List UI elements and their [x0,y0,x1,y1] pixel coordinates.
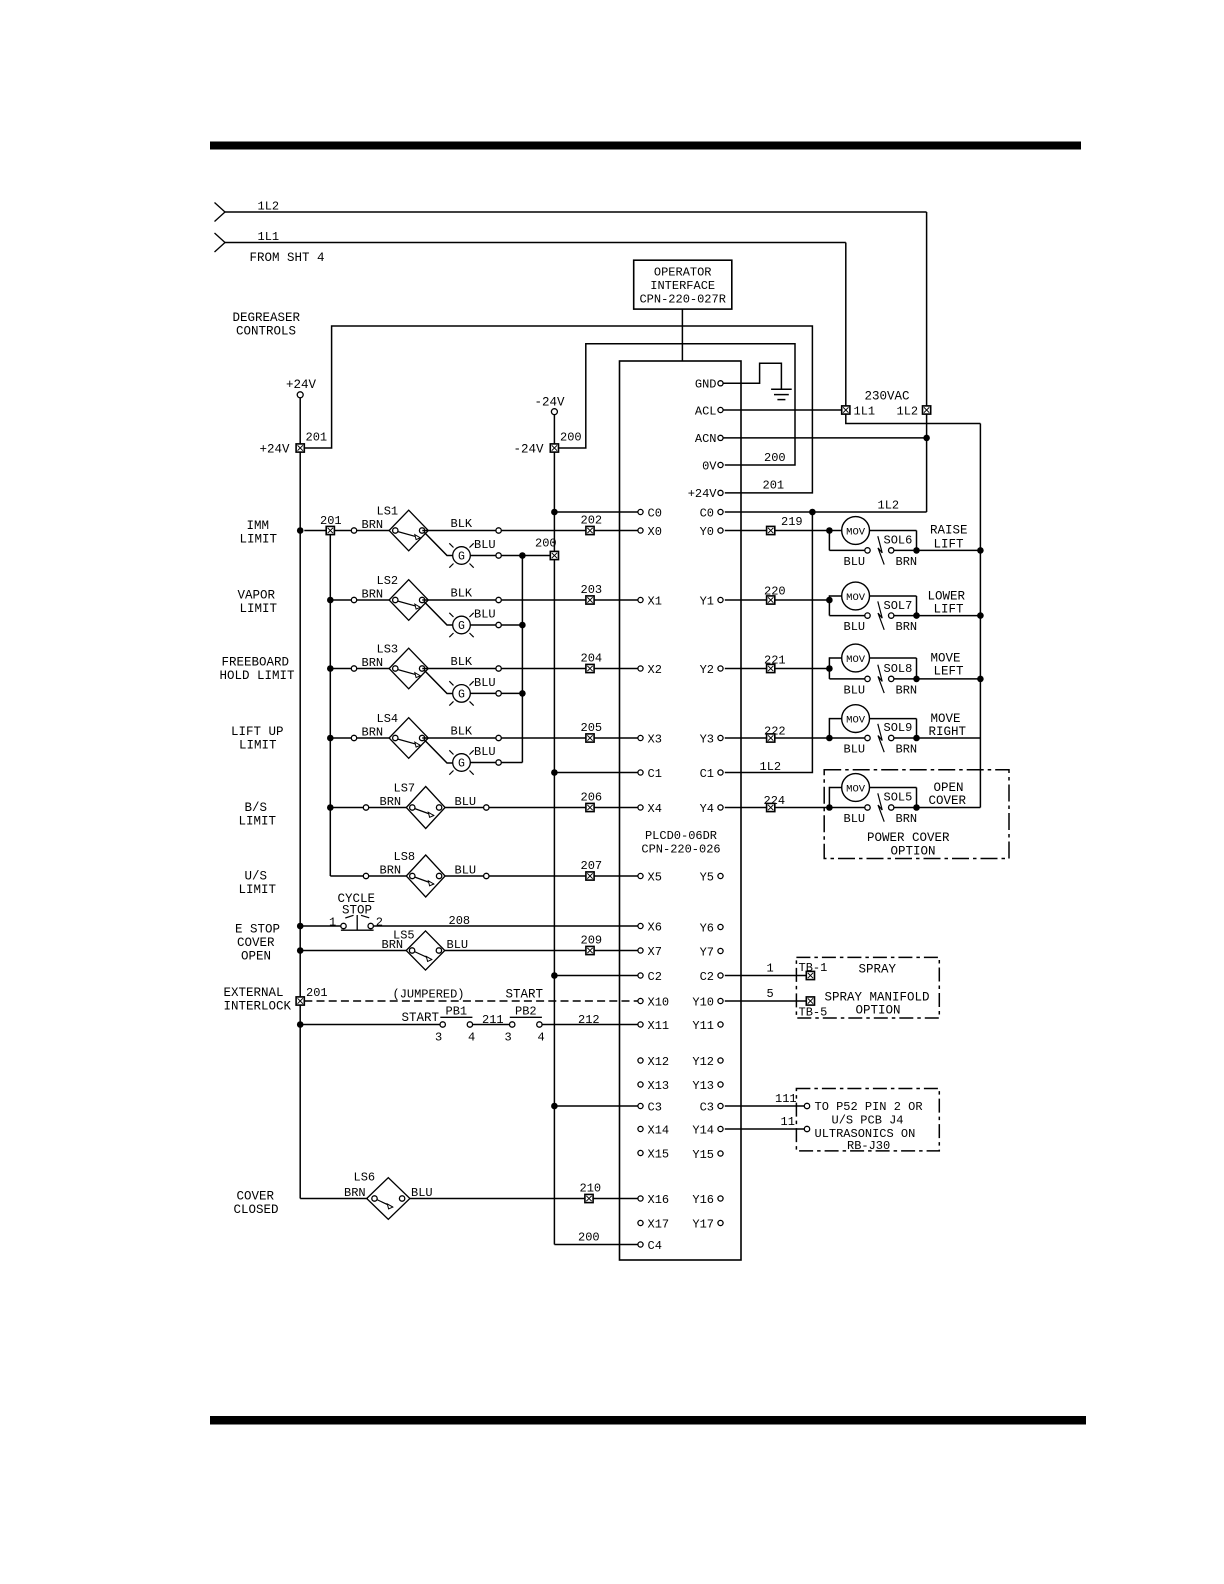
svg-text:START: START [506,988,544,1002]
wire GND [723,363,781,389]
svg-text:205: 205 [581,721,603,735]
svg-text:RAISE: RAISE [930,523,968,537]
ultrasonics box (dash-dot) [796,1089,939,1151]
pin X14 [638,1123,669,1137]
wire LS1 BLU to lamp bus [501,555,522,557]
pin Y5 [700,870,724,884]
svg-text:BRN: BRN [896,555,918,569]
label U/S LIMIT [239,870,277,898]
svg-text:Y1: Y1 [700,594,714,608]
pin C2 [638,970,662,984]
power cover option box (dash-dot) [824,770,1009,859]
wire 208 to PLC [373,925,638,927]
terminal 221 [767,664,775,672]
svg-text:5: 5 [767,987,774,1001]
pin X1 [638,594,662,608]
svg-text:DEGREASER: DEGREASER [233,311,301,325]
wire C3 left [554,1105,638,1107]
svg-text:OPEN: OPEN [934,781,964,795]
terminal TB-5 [806,997,814,1005]
svg-text:CPN-220-027R: CPN-220-027R [639,293,725,307]
wire 205 to PLC [594,737,638,739]
wire LS1 to lamp [425,533,453,556]
svg-text:COVER: COVER [237,936,275,950]
svg-text:Y16: Y16 [692,1193,714,1207]
junction cover-open row [297,947,304,954]
connection point LS4 BRN [351,735,356,740]
wire LS3 BLU to lamp bus [501,692,522,694]
wire C0 left [554,511,638,513]
svg-text:MOV: MOV [846,592,866,604]
terminal 201 +24V [296,444,304,452]
indicator lamp G LS1 [449,543,473,567]
svg-text:TO P52 PIN 2 OR: TO P52 PIN 2 OR [815,1100,923,1114]
svg-text:LIMIT: LIMIT [239,739,277,753]
top border bar [211,142,1081,149]
label MOVE LEFT [931,652,965,679]
wire left bus to LS6 [300,1198,368,1200]
svg-text:B/S: B/S [245,801,268,815]
solenoid coil SOL6 [829,536,916,564]
svg-text:X12: X12 [648,1055,670,1069]
svg-text:+24V: +24V [260,443,291,457]
connection point LS4 BLU [496,760,501,765]
wire to LS3 switch [357,668,390,670]
label MOVE RIGHT [929,712,967,739]
svg-text:Y14: Y14 [692,1123,714,1137]
terminal 200 on -24V bus (LS lamp return) [550,551,558,559]
wire branch bus to LS3 [330,668,351,670]
svg-text:0V: 0V [702,459,717,473]
pin X4 [638,802,662,816]
svg-text:X15: X15 [648,1147,670,1161]
wire left bus to LS5 [300,950,407,952]
svg-text:207: 207 [581,859,603,873]
svg-text:BRN: BRN [896,620,918,634]
lamp return bus [521,556,523,763]
junction bus SOL7 [977,612,984,619]
svg-text:LS2: LS2 [377,574,399,588]
wire 1L2 below terminal [926,414,928,512]
svg-text:LIMIT: LIMIT [239,883,277,897]
pin X13 [638,1079,669,1093]
junction branch bus [327,597,334,604]
wire Y14 to ultrasonics [725,1128,805,1130]
junction start row [297,1021,304,1028]
svg-text:RB-J30: RB-J30 [847,1139,890,1153]
svg-text:COVER: COVER [237,1190,275,1204]
svg-text:209: 209 [581,934,603,948]
svg-text:211: 211 [482,1013,504,1027]
connection point ultrasonics C3 [804,1103,809,1108]
pushbutton PB2 (NO) [510,1017,543,1027]
svg-text:OPERATOR: OPERATOR [654,266,712,280]
label FREEBOARD HOLD LIMIT [220,656,296,684]
svg-text:IMM: IMM [247,519,270,533]
pin Y1 [700,594,724,608]
svg-text:C0: C0 [700,506,714,520]
svg-text:221: 221 [764,654,786,668]
wire 201 to LS1 [334,530,351,532]
terminal 222 [767,734,775,742]
wire 1L1 vertical drop [845,243,847,406]
wire C3 to ultrasonics [725,1105,805,1107]
solenoid SOL8 MOV branch [829,644,916,679]
wire LS1 to terminal 202 [501,530,586,532]
svg-text:BLU: BLU [844,743,866,757]
pin C1 [638,767,662,781]
pushbutton PB1 (NO) [440,1017,473,1027]
svg-text:C2: C2 [648,970,662,984]
svg-text:INTERLOCK: INTERLOCK [224,1000,292,1014]
svg-text:FROM SHT 4: FROM SHT 4 [250,251,325,265]
svg-text:BLU: BLU [844,555,866,569]
svg-text:Y7: Y7 [700,945,714,959]
svg-text:230VAC: 230VAC [864,390,909,404]
indicator lamp G LS2 [449,613,473,637]
svg-text:SOL5: SOL5 [884,791,913,805]
pin GND [695,378,723,392]
svg-text:C0: C0 [648,506,662,520]
pin C3 [638,1100,662,1114]
pin X15 [638,1147,669,1161]
svg-text:220: 220 [764,585,786,599]
wire LS2 BLK [422,599,496,601]
wire 210 to PLC [593,1198,638,1200]
svg-text:C2: C2 [700,970,714,984]
wire LS3 BLK [422,668,496,670]
pin X12 [638,1055,669,1069]
terminal 207 [586,872,594,880]
wire Y output 222 [725,737,767,739]
pin C4 [638,1239,662,1253]
terminal 200 -24V [550,444,558,452]
svg-text:MOV: MOV [846,715,866,727]
svg-text:PLCD0-06DR: PLCD0-06DR [645,829,717,843]
wire Y10 to TB-5 [725,1000,807,1002]
wire LS4 to lamp [425,740,453,763]
svg-text:PB2: PB2 [515,1005,537,1019]
wire SOL7 to 1L2 bus [917,615,981,617]
wire Y output 224 [725,807,767,809]
wire branch bus to LS8 [330,875,363,877]
svg-text:Y10: Y10 [692,995,714,1009]
wire Y output 219 [725,530,767,532]
svg-text:Y3: Y3 [700,732,714,746]
svg-text:BLK: BLK [451,587,473,601]
svg-text:C1: C1 [648,767,662,781]
label EXTERNAL INTERLOCK [224,986,292,1014]
terminal 206 [586,803,594,811]
pin 0V [702,459,723,473]
svg-text:201: 201 [320,514,342,528]
junction E-stop row [297,923,304,930]
wire ACL to 1L1 [723,409,842,411]
svg-text:LIMIT: LIMIT [240,602,278,616]
wire 224 to solenoid [775,807,830,809]
svg-text:CONTROLS: CONTROLS [236,325,296,339]
pin X3 [638,732,662,746]
label B/S LIMIT [239,801,277,829]
connection point LS7 BLU [484,805,489,810]
pushbutton CYCLE STOP (NC) [341,915,374,930]
terminal 220 [767,596,775,604]
pin Y15 [692,1148,723,1162]
wire LS3 lamp BLU [470,692,496,694]
label COVER CLOSED [234,1190,279,1218]
node 201 bus junction X0 [297,527,304,534]
terminal +24V source [286,378,317,398]
svg-text:BLK: BLK [451,725,473,739]
connection point LS7 BRN [363,805,368,810]
terminal 201 external interlock [296,997,304,1005]
feeder arrow 1L2 [215,203,226,222]
svg-text:206: 206 [581,791,603,805]
junction C3 on -24V bus [551,1103,558,1110]
svg-text:+24V: +24V [286,378,317,392]
svg-text:201: 201 [306,431,328,445]
wire SOL8 to 1L2 bus [917,678,981,680]
svg-text:200: 200 [764,451,786,465]
wire SOL6 to 1L2 bus [917,549,981,551]
label RAISE LIFT [930,523,968,551]
terminal 210 [585,1194,593,1202]
wire branch bus to LS4 [330,737,351,739]
wire 200 to PLC 0V pin (routed) [559,344,796,465]
indicator lamp G LS3 [449,681,473,705]
wire LS4 BLU to lamp bus [501,762,522,764]
wire LS1 BLK [422,530,496,532]
wire C2 left [554,975,638,977]
connection point LS2 BLU [496,622,501,627]
svg-text:EXTERNAL: EXTERNAL [224,986,284,1000]
svg-text:201: 201 [306,986,328,1000]
wire C4 from -24V bus [554,1244,638,1246]
svg-text:BLU: BLU [474,608,496,622]
svg-text:MOVE: MOVE [931,652,961,666]
pin X17 [638,1217,669,1231]
wire to LS8 [369,875,407,877]
svg-text:PB1: PB1 [446,1005,468,1019]
connection point LS3 BRN [351,666,356,671]
terminal 201 LS1 row [304,514,341,535]
svg-text:X10: X10 [648,995,670,1009]
wire 1L1 feeder [225,242,846,244]
junction SOL8 output [826,665,833,672]
wire LS1 lamp BLU [470,555,496,557]
svg-text:Y5: Y5 [700,870,714,884]
terminal 205 [586,734,594,742]
svg-text:X17: X17 [648,1217,670,1231]
wire -24V source to terminal 200 [553,415,555,444]
wire C2 to TB-1 [725,975,807,977]
connection point LS3 BLK [496,666,501,671]
svg-text:2: 2 [376,916,383,930]
svg-text:LS1: LS1 [377,505,399,519]
svg-text:CPN-220-026: CPN-220-026 [641,843,720,857]
svg-text:+24V: +24V [688,487,718,501]
svg-text:POWER COVER: POWER COVER [867,831,950,845]
+24V left bus [299,452,301,1198]
junction branch bus [327,665,334,672]
svg-text:202: 202 [581,514,603,528]
svg-text:201: 201 [763,479,785,493]
svg-text:GND: GND [695,378,717,392]
svg-text:SPRAY MANIFOLD: SPRAY MANIFOLD [825,991,930,1005]
-24V bus vertical [553,452,555,1244]
wire 204 to PLC [594,668,638,670]
svg-text:G: G [458,620,465,633]
connection point LS2 BLK [496,597,501,602]
svg-text:COVER: COVER [929,794,967,808]
svg-text:1L2: 1L2 [760,760,782,774]
svg-text:3: 3 [435,1031,442,1045]
wire to LS2 switch [357,599,390,601]
svg-text:Y15: Y15 [692,1148,714,1162]
pin C1 [700,767,724,781]
pin Y4 [700,802,724,816]
feeder arrow 1L1 [215,233,226,252]
limit switch LS7 [406,787,445,829]
junction lamp bus LS3 [519,690,526,697]
svg-text:X13: X13 [648,1079,670,1093]
svg-text:1L1: 1L1 [854,405,876,419]
wire branch bus to LS7 [330,807,363,809]
svg-text:4: 4 [468,1031,475,1045]
wire to LS1 switch [357,530,390,532]
pin +24V [688,487,723,501]
svg-text:X16: X16 [648,1193,670,1207]
svg-text:LS8: LS8 [394,850,416,864]
connection point LS2 BRN [351,597,356,602]
wire LS2 BLU to lamp bus [501,624,522,626]
pin Y7 [700,945,724,959]
junction branch bus [327,804,334,811]
limit switch LS5 [406,931,445,970]
svg-text:LS5: LS5 [393,929,415,943]
wire SOL9 to 1L2 bus [917,737,981,739]
svg-text:204: 204 [581,652,603,666]
pin Y17 [692,1217,723,1231]
pin X6 [638,920,662,934]
svg-text:FREEBOARD: FREEBOARD [222,656,290,670]
svg-text:TB-1: TB-1 [799,961,828,975]
svg-text:LIFT UP: LIFT UP [231,725,284,739]
svg-text:X1: X1 [648,594,662,608]
svg-text:SPRAY: SPRAY [859,963,897,977]
svg-text:BRN: BRN [896,683,918,697]
wire 209 to PLC [594,950,638,952]
svg-text:Y12: Y12 [692,1055,714,1069]
svg-text:OPTION: OPTION [856,1004,901,1018]
wire 203 to PLC [594,599,638,601]
pin Y14 [692,1123,723,1137]
svg-text:224: 224 [764,794,786,808]
wire 222 to solenoid [775,737,830,739]
svg-text:212: 212 [578,1013,600,1027]
svg-text:LOWER: LOWER [928,590,966,604]
wire LS3 to terminal 204 [501,668,586,670]
junction 1L2-ACN [923,435,930,442]
svg-text:1L2: 1L2 [878,499,900,513]
svg-text:BRN: BRN [344,1186,366,1200]
svg-text:BLU: BLU [844,812,866,826]
wire LS7 to terminal 206 [489,807,586,809]
spray manifold option box (dash-dot) [796,957,939,1018]
svg-text:-24V: -24V [535,396,566,410]
limit switch LS1 [389,510,428,551]
terminal TB-1 [806,971,814,979]
solenoid SOL5 MOV branch [829,774,916,808]
wire ACN to 1L2 [723,437,927,439]
svg-text:(JUMPERED): (JUMPERED) [393,988,465,1002]
limit switch LS2 [389,580,428,621]
svg-text:SOL9: SOL9 [884,721,913,735]
connection point LS1 BLU [496,553,501,558]
junction C2 on -24V bus [551,972,558,979]
wire 202 to PLC [594,530,638,532]
wire LS8 BLU [445,875,484,877]
ground symbol [771,389,792,399]
svg-text:MOV: MOV [846,654,866,666]
terminal 224 [767,803,775,811]
wire LS7 BLU [445,807,484,809]
svg-text:C4: C4 [648,1239,662,1253]
wire LS4 to terminal 205 [501,737,586,739]
svg-text:210: 210 [580,1182,602,1196]
svg-text:G: G [458,689,465,702]
pin C2 [700,970,724,984]
wire 1L2 feeder [225,211,927,213]
junction SOL5 output [826,804,833,811]
svg-text:X11: X11 [648,1019,670,1033]
svg-text:222: 222 [764,725,786,739]
terminal 204 [586,664,594,672]
svg-text:1: 1 [767,962,774,976]
svg-text:G: G [458,758,465,771]
junction bus SOL6 [977,547,984,554]
svg-text:C1: C1 [700,767,714,781]
svg-text:G: G [458,551,465,564]
svg-text:Y4: Y4 [700,802,714,816]
wire +24V source to terminal 201 [299,398,301,444]
svg-text:X5: X5 [648,870,662,884]
pin Y16 [692,1193,723,1207]
svg-text:X3: X3 [648,732,662,746]
svg-text:Y11: Y11 [692,1019,714,1033]
junction branch bus [327,735,334,742]
wire jumpered (dashed) to X10 [304,1000,638,1002]
svg-text:111: 111 [775,1092,797,1106]
pin ACL [695,404,723,418]
svg-text:BLU: BLU [844,683,866,697]
svg-text:1: 1 [329,916,336,930]
svg-text:BLU: BLU [474,538,496,552]
pin ACN [695,432,723,446]
terminal 219 [767,526,775,534]
label OPEN COVER [929,781,967,808]
connection point ultrasonics Y14 [804,1126,809,1131]
wire to LS7 [369,807,407,809]
svg-text:LS4: LS4 [377,712,399,726]
svg-text:X4: X4 [648,802,662,816]
svg-text:3: 3 [505,1031,512,1045]
wire C1 left [554,772,638,774]
terminal 203 [586,596,594,604]
svg-text:Y0: Y0 [700,525,714,539]
svg-text:START: START [402,1011,440,1025]
svg-text:LS7: LS7 [394,782,416,796]
